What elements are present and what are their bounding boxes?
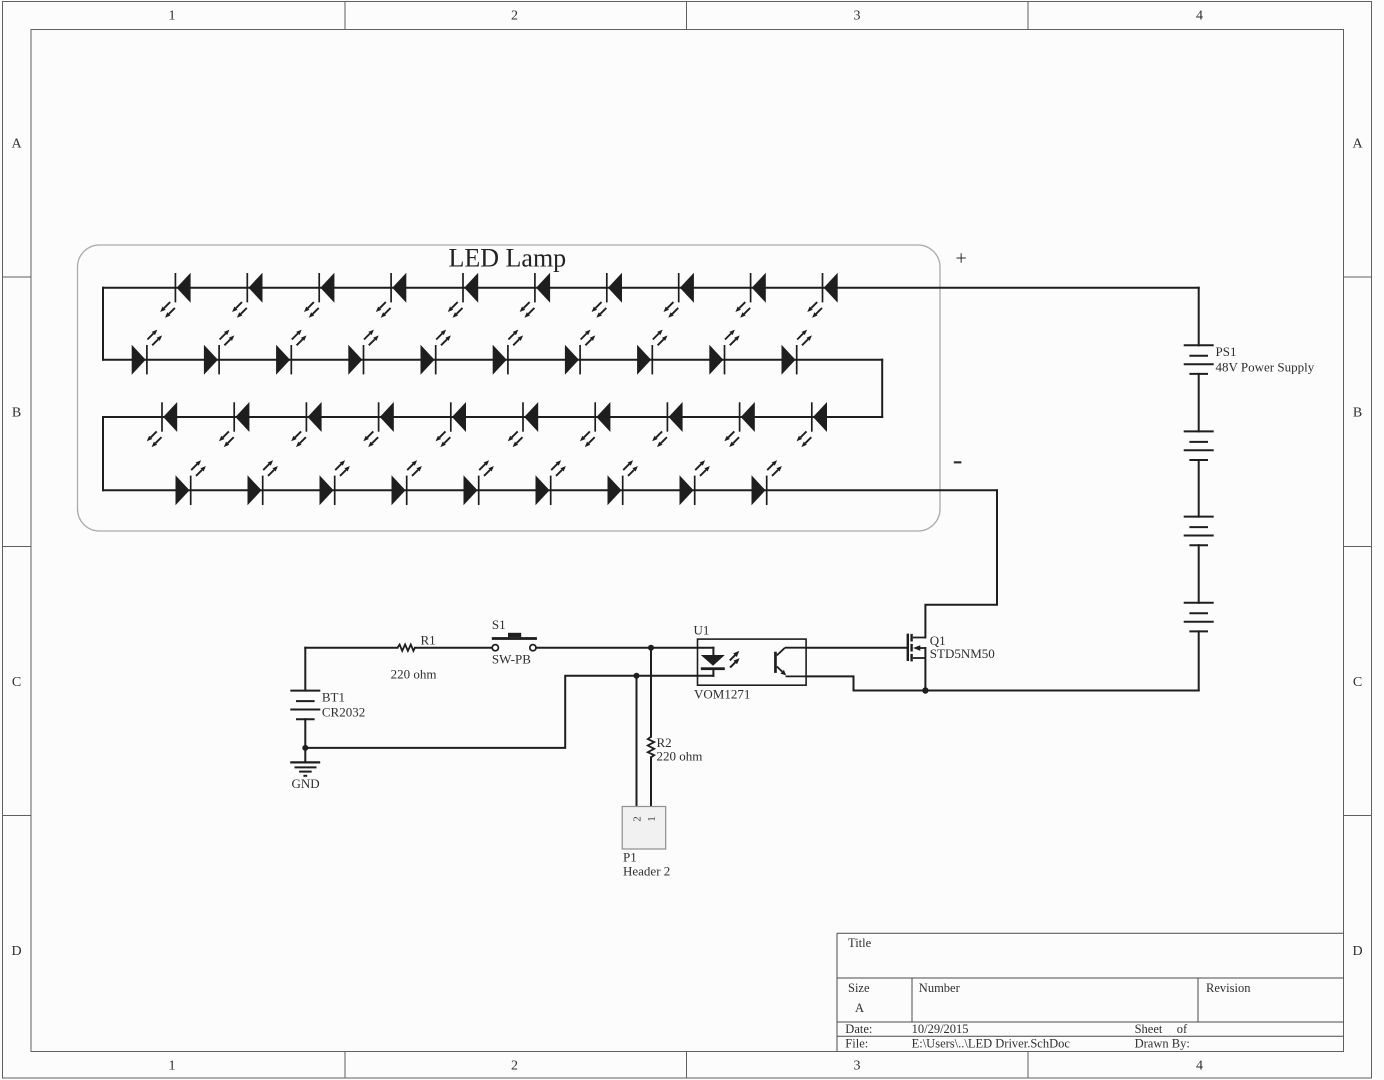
svg-text:of: of [1177,1022,1188,1036]
wire: LED row 2 [103,359,882,361]
svg-text:P1: P1 [623,849,637,864]
wire: LED row 3 [103,416,882,418]
LED row2 D18 [637,330,667,375]
LED row1 D8 [664,273,694,318]
header P1 box [622,807,666,850]
column tick 1|2 bottom [344,1052,346,1079]
column tick 2|3 bottom [686,1052,688,1079]
wire: R1 to S1 [415,647,492,649]
LED row2 D15 [421,330,451,375]
svg-text:1: 1 [646,816,658,822]
LED row4 D34 [392,460,422,505]
svg-text:Header 2: Header 2 [623,864,670,879]
column tick 2|3 top [686,2,688,30]
wire: row4 down to Q1 drain level [925,490,997,637]
svg-text:Drawn By:: Drawn By: [1135,1037,1190,1051]
LED row4 D38 [680,460,710,505]
U1 LED light arrows [730,651,740,668]
wire: S1 to U1 pin1 [536,647,713,649]
wire: LED row 4 [103,489,997,491]
LED row1 D9 [735,273,765,318]
ground GND [290,762,320,775]
row tick A|B left [3,276,32,278]
svg-text:E:\Users\..\LED Driver.SchDoc: E:\Users\..\LED Driver.SchDoc [912,1037,1071,1051]
svg-text:D: D [1352,944,1362,959]
junction pin2 wire / P1 [634,673,640,679]
svg-text:3: 3 [854,1059,861,1074]
power supply PS1 [1184,345,1214,631]
column tick 3|4 bottom [1027,1052,1029,1079]
junction gate wire / R2 [648,645,654,651]
row tick B|C right [1344,546,1372,548]
LED row2 D14 [348,330,378,375]
svg-text:1: 1 [169,1059,176,1074]
svg-text:LED Lamp: LED Lamp [449,244,567,273]
LED row4 D36 [536,460,566,505]
wire: bottom return to PS1 [854,690,1199,692]
wire: left vertical row3-row4 [102,417,104,490]
svg-text:4: 4 [1196,1059,1203,1074]
wire: right vertical row2-row3 [881,360,883,417]
svg-text:BT1: BT1 [322,690,345,705]
LED row2 D20 [782,330,812,375]
wire: BT1 bottom vertical to GND [304,719,306,762]
LED row1 D6 [520,273,550,318]
LED row3 D21 [147,402,177,447]
LED row4 D31 [176,460,206,505]
LED row1 D10 [807,273,837,318]
wire: GND return to U1 pin2 [305,676,713,748]
svg-text:220 ohm: 220 ohm [391,666,437,681]
row tick C|D right [1344,815,1372,817]
title block frame [837,933,1344,1051]
LED row2 D17 [565,330,595,375]
LED row3 D24 [363,402,393,447]
LED row3 D25 [436,402,466,447]
LED row1 D7 [592,273,622,318]
svg-text:2: 2 [632,816,644,822]
op-coupler U1 box [698,639,807,685]
wire: U1 emitter to source node [806,676,925,690]
junction Q1 source / return wire [922,687,928,693]
svg-text:Number: Number [919,981,961,995]
svg-text:CR2032: CR2032 [322,705,365,720]
LED row2 D13 [276,330,306,375]
wire: left vertical row1-row2 [102,288,104,360]
LED row3 D29 [724,402,754,447]
svg-text:C: C [1353,675,1362,690]
svg-text:Date:: Date: [845,1022,872,1036]
LED row3 D30 [797,402,827,447]
svg-text:C: C [12,675,21,690]
column tick 1|2 top [344,2,346,30]
node - label [954,461,962,463]
U1 internal LED [701,648,725,676]
column tick 3|4 top [1027,2,1029,30]
wire: PS1 internal verticals [1198,288,1200,346]
wire: R2 to P1 pin1 [650,757,652,806]
row tick A|B right [1344,276,1372,278]
svg-text:4: 4 [1196,9,1203,24]
LED row4 D35 [464,460,494,505]
LED row1 D1 [160,273,190,318]
svg-text:Sheet: Sheet [1135,1022,1163,1036]
battery BT1 [290,691,320,720]
svg-text:STD5NM50: STD5NM50 [930,646,995,661]
svg-text:S1: S1 [492,617,506,632]
wire: BT1 vertical top [304,648,306,691]
LED row2 D19 [709,330,739,375]
svg-text:Size: Size [848,981,870,995]
LED row4 D32 [248,460,278,505]
svg-text:2: 2 [511,1059,518,1074]
LED row3 D26 [508,402,538,447]
LED row4 D33 [320,460,350,505]
wire: junction down to P1 pin2 [636,676,638,807]
LED row2 D16 [493,330,523,375]
svg-text:Title: Title [848,936,872,950]
switch S1 (SW-PB) [492,633,537,651]
wire: junction down to R2 [650,648,652,737]
svg-text:File:: File: [845,1037,868,1051]
svg-text:SW-PB: SW-PB [492,651,531,666]
svg-text:Revision: Revision [1206,981,1251,995]
svg-text:1: 1 [169,9,176,24]
svg-text:+: + [956,248,967,270]
LED Lamp enclosure box [78,245,941,531]
junction BT1/GND/return [302,745,308,751]
LED row1 D3 [304,273,334,318]
svg-text:U1: U1 [694,623,710,638]
svg-text:R1: R1 [421,633,436,648]
LED row4 D37 [608,460,638,505]
svg-text:48V Power Supply: 48V Power Supply [1216,360,1315,375]
svg-text:A: A [11,137,22,152]
LED row3 D28 [652,402,682,447]
row tick B|C left [3,546,32,548]
svg-text:2: 2 [511,9,518,24]
LED row2 D11 [132,330,162,375]
svg-text:10/29/2015: 10/29/2015 [912,1022,969,1036]
U1 photo transistor [774,648,806,677]
svg-text:B: B [1353,406,1362,421]
svg-text:PS1: PS1 [1216,344,1237,359]
resistor R1 [398,645,415,651]
LED row3 D27 [580,402,610,447]
svg-text:GND: GND [292,776,320,791]
svg-text:A: A [855,1001,864,1015]
wire: Q1 source down to return [924,648,926,691]
svg-text:220 ohm: 220 ohm [657,749,703,764]
wire: LED row 1 to power supply + [103,287,1199,289]
svg-text:B: B [12,406,21,421]
svg-text:A: A [1352,137,1363,152]
LED row1 D5 [448,273,478,318]
resistor R2 [648,737,654,758]
transistor Q1 [907,634,926,662]
row tick C|D left [3,815,32,817]
svg-text:VOM1271: VOM1271 [694,687,750,702]
LED row3 D22 [219,402,249,447]
LED row1 D4 [376,273,406,318]
LED row4 D39 [752,460,782,505]
LED row1 D2 [232,273,262,318]
LED row3 D23 [291,402,321,447]
svg-text:D: D [11,944,21,959]
wire: U1 collector to Q1 gate [806,647,906,649]
svg-text:3: 3 [854,9,861,24]
LED row2 D12 [204,330,234,375]
wire: BT1 top to R1 [305,647,397,649]
